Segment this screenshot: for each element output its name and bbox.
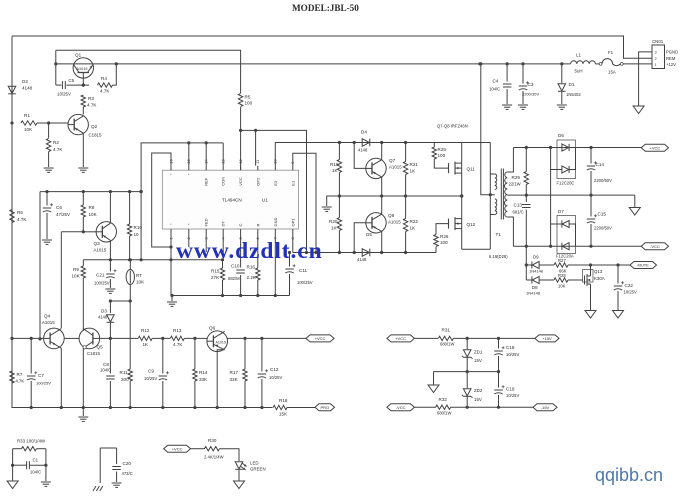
svg-text:A1015: A1015 [388,220,401,225]
svg-text:C12: C12 [270,367,279,372]
svg-text:Q12: Q12 [467,222,476,227]
svg-text:33K: 33K [199,377,208,382]
svg-text:4.7K: 4.7K [16,379,25,384]
svg-text:Q2: Q2 [91,124,98,129]
svg-text:C11: C11 [299,268,308,273]
svg-text:FED: FED [204,218,209,226]
svg-text:C1: C1 [33,458,39,463]
svg-text:10/25V: 10/25V [624,290,637,295]
svg-text:C22: C22 [625,283,634,288]
svg-text:R13: R13 [173,328,182,333]
svg-text:REM: REM [666,56,676,61]
svg-text:OP1: OP1 [290,218,295,227]
svg-text:1K: 1K [332,168,339,173]
svg-text:1K: 1K [410,169,417,174]
svg-text:Q8: Q8 [388,213,395,218]
svg-text:1N5402: 1N5402 [566,92,581,97]
svg-text:47/25V: 47/25V [56,212,70,217]
svg-text:R21: R21 [410,162,419,167]
svg-text:R30: R30 [208,438,217,443]
svg-text:PGND: PGND [666,50,678,55]
svg-text:A1015: A1015 [42,320,55,325]
svg-text:A1015: A1015 [77,67,88,71]
svg-text:4.7K: 4.7K [53,147,63,152]
svg-text:R8: R8 [89,205,95,210]
svg-text:3: 3 [655,51,657,55]
svg-text:10K: 10K [558,284,566,289]
svg-text:RT: RT [136,273,142,278]
svg-text:680/1W: 680/1W [437,411,451,416]
svg-text:10/25V: 10/25V [506,393,519,398]
svg-text:Q6: Q6 [209,326,216,331]
svg-text:100/25V: 100/25V [297,280,313,285]
svg-text:4.7K: 4.7K [17,217,27,222]
svg-text:D4: D4 [361,130,367,135]
svg-text:R32: R32 [439,397,448,402]
svg-text:+VCC: +VCC [172,446,183,451]
svg-text:D9: D9 [533,255,539,260]
svg-text:12: 12 [238,159,243,163]
svg-text:CON: CON [221,177,226,186]
svg-text:33K: 33K [230,377,239,382]
svg-text:R17: R17 [230,370,239,375]
svg-text:R6: R6 [17,210,23,215]
svg-text:11: 11 [255,160,260,164]
svg-text:A1015: A1015 [216,341,226,345]
svg-text:1: 1 [655,63,657,67]
svg-text:K30A: K30A [594,276,605,281]
svg-text:CN01: CN01 [652,39,664,44]
svg-text:ZD1: ZD1 [474,350,483,355]
svg-text:2200/35V: 2200/35V [522,92,539,97]
svg-text:R9: R9 [73,267,79,272]
svg-text:R14: R14 [199,370,208,375]
svg-text:R: R [255,224,260,227]
svg-text:R7: R7 [17,372,23,377]
svg-text:D6: D6 [558,133,564,138]
svg-text:682/M: 682/M [228,276,240,281]
svg-text:10K: 10K [89,212,98,217]
svg-text:4.7K: 4.7K [87,103,97,108]
svg-text:473/C: 473/C [122,471,133,476]
svg-text:4.7K: 4.7K [100,89,110,94]
svg-text:PRO: PRO [320,405,329,410]
svg-text:C18: C18 [506,345,515,350]
svg-text:D5: D5 [366,232,372,237]
svg-text:C21: C21 [96,273,105,278]
svg-text:4148: 4148 [22,86,33,91]
svg-text:C14: C14 [596,162,605,167]
svg-text:R11: R11 [120,370,129,375]
svg-text:1K: 1K [410,226,417,231]
svg-text:10K: 10K [72,274,81,279]
svg-text:10K: 10K [136,280,145,285]
svg-text:www.dzdlt.cn: www.dzdlt.cn [176,238,323,264]
svg-text:F12C20C: F12C20C [557,181,575,186]
svg-text:4.7K: 4.7K [173,342,183,347]
svg-text:R3: R3 [88,96,94,101]
svg-text:R2: R2 [53,140,59,145]
svg-text:1K: 1K [143,342,150,347]
svg-text:2.4K/1/4W: 2.4K/1/4W [204,455,224,460]
svg-text:27K: 27K [211,275,220,280]
svg-text:L1: L1 [576,53,581,58]
svg-text:E1: E1 [290,180,295,186]
svg-text:R19: R19 [330,162,339,167]
svg-text:R5: R5 [245,95,251,100]
svg-text:15V: 15V [474,358,482,363]
svg-text:GREEN: GREEN [250,467,266,472]
svg-text:15A: 15A [608,70,616,75]
svg-text:A1015: A1015 [389,165,402,170]
svg-text:-15V: -15V [541,405,550,410]
svg-text:-VCC: -VCC [650,244,660,249]
svg-text:R1: R1 [24,113,30,118]
svg-text:+VCC: +VCC [315,336,326,341]
svg-text:R12: R12 [141,328,150,333]
svg-text:5uH: 5uH [575,69,583,74]
svg-text:C20: C20 [123,461,132,466]
svg-text:100: 100 [245,101,253,106]
svg-text:C5: C5 [69,78,75,83]
svg-text:C1815: C1815 [87,351,100,356]
svg-text:+VCC: +VCC [650,145,661,150]
svg-text:C9: C9 [148,369,154,374]
svg-text:R4: R4 [101,76,107,81]
svg-text:TL494CN: TL494CN [222,198,242,203]
svg-text:R28: R28 [558,273,566,278]
svg-text:100: 100 [438,153,446,158]
svg-text:R22: R22 [410,219,419,224]
svg-text:1N4148: 1N4148 [526,291,541,296]
svg-text:D8: D8 [532,285,538,290]
svg-text:2.2K: 2.2K [247,275,257,280]
svg-text:C7: C7 [38,373,44,378]
svg-text:104/C: 104/C [30,470,41,475]
svg-text:MUTE: MUTE [638,263,650,268]
svg-text:22/1W: 22/1W [509,182,521,187]
svg-text:Q13: Q13 [594,269,603,274]
svg-text:Q7-Q8 IRFZ46N: Q7-Q8 IRFZ46N [437,124,468,129]
svg-text:C13: C13 [514,203,523,208]
svg-text:GND: GND [273,218,278,227]
svg-text:R15: R15 [211,269,220,274]
svg-text:C19: C19 [506,387,515,392]
svg-text:U1: U1 [262,198,268,203]
svg-text:104/C: 104/C [100,368,111,373]
svg-text:C1815: C1815 [89,133,102,138]
svg-text:6.16(D28): 6.16(D28) [489,254,508,259]
svg-text:2200/50V: 2200/50V [594,226,612,231]
svg-text:100: 100 [440,240,448,245]
svg-text:Q1: Q1 [75,53,82,58]
svg-text:4148: 4148 [358,148,368,153]
svg-text:F1: F1 [608,50,614,55]
svg-text:10/25V: 10/25V [144,376,157,381]
svg-text:200: 200 [121,377,129,382]
svg-text:Q3: Q3 [94,241,101,246]
svg-text:R25: R25 [438,147,447,152]
svg-text:R29: R29 [512,175,521,180]
svg-text:ZD2: ZD2 [474,388,483,393]
svg-text:15K: 15K [279,412,288,417]
svg-text:R33 100/1/4W: R33 100/1/4W [17,439,46,444]
svg-text:OP2: OP2 [255,177,260,186]
svg-text:C: C [238,224,243,227]
svg-text:C4: C4 [493,79,499,84]
svg-text:100/25V: 100/25V [36,381,51,386]
svg-text:1N4148: 1N4148 [529,269,544,274]
svg-text:R18: R18 [279,398,288,403]
svg-text:2: 2 [655,57,657,61]
svg-text:10/25V: 10/25V [57,92,71,97]
svg-text:15V: 15V [474,397,482,402]
svg-text:D7: D7 [558,209,564,214]
svg-text:Q7: Q7 [389,158,396,163]
svg-text:Q11: Q11 [467,167,476,172]
svg-text:104/C: 104/C [489,87,500,92]
svg-text:-VCC: -VCC [396,405,406,410]
svg-text:10/25V: 10/25V [269,375,282,380]
svg-text:VCC: VCC [238,177,243,186]
svg-text:C6: C6 [56,205,62,210]
svg-text:680/1W: 680/1W [440,342,454,347]
svg-text:10K: 10K [24,127,33,132]
svg-text:D2: D2 [22,79,28,84]
svg-text:10: 10 [134,232,140,237]
svg-text:4148: 4148 [98,315,108,320]
svg-text:1K: 1K [331,226,338,231]
svg-text:R20: R20 [329,219,338,224]
svg-text:+12V: +12V [666,62,676,67]
svg-text:qqibb.cn: qqibb.cn [595,465,663,485]
svg-text:+VCC: +VCC [395,336,406,341]
svg-text:C8: C8 [103,362,109,367]
svg-text:Q4: Q4 [44,314,51,319]
svg-text:A1015: A1015 [94,248,107,253]
svg-text:C10: C10 [231,264,240,269]
svg-text:Q5: Q5 [97,345,104,350]
svg-text:+15V: +15V [542,336,552,341]
svg-text:R31: R31 [442,328,451,333]
svg-text:T1: T1 [496,232,502,237]
svg-text:DT: DT [221,221,226,227]
svg-text:D3: D3 [101,309,107,314]
svg-text:LED: LED [250,461,259,466]
svg-text:10/25V: 10/25V [506,352,519,357]
svg-text:REF: REF [204,177,209,186]
svg-text:2200/50V: 2200/50V [594,178,612,183]
svg-text:D1: D1 [569,82,575,87]
svg-text:R27: R27 [558,258,566,263]
svg-text:R26: R26 [440,234,449,239]
svg-text:MODEL:JBL-50: MODEL:JBL-50 [292,3,359,13]
svg-text:4148: 4148 [357,257,367,262]
svg-text:C3: C3 [528,82,534,87]
svg-text:C15: C15 [598,212,607,217]
svg-text:E2: E2 [273,180,278,186]
svg-text:100/25V: 100/25V [94,281,110,286]
svg-text:681/C: 681/C [513,210,524,215]
svg-text:R16: R16 [247,265,256,270]
